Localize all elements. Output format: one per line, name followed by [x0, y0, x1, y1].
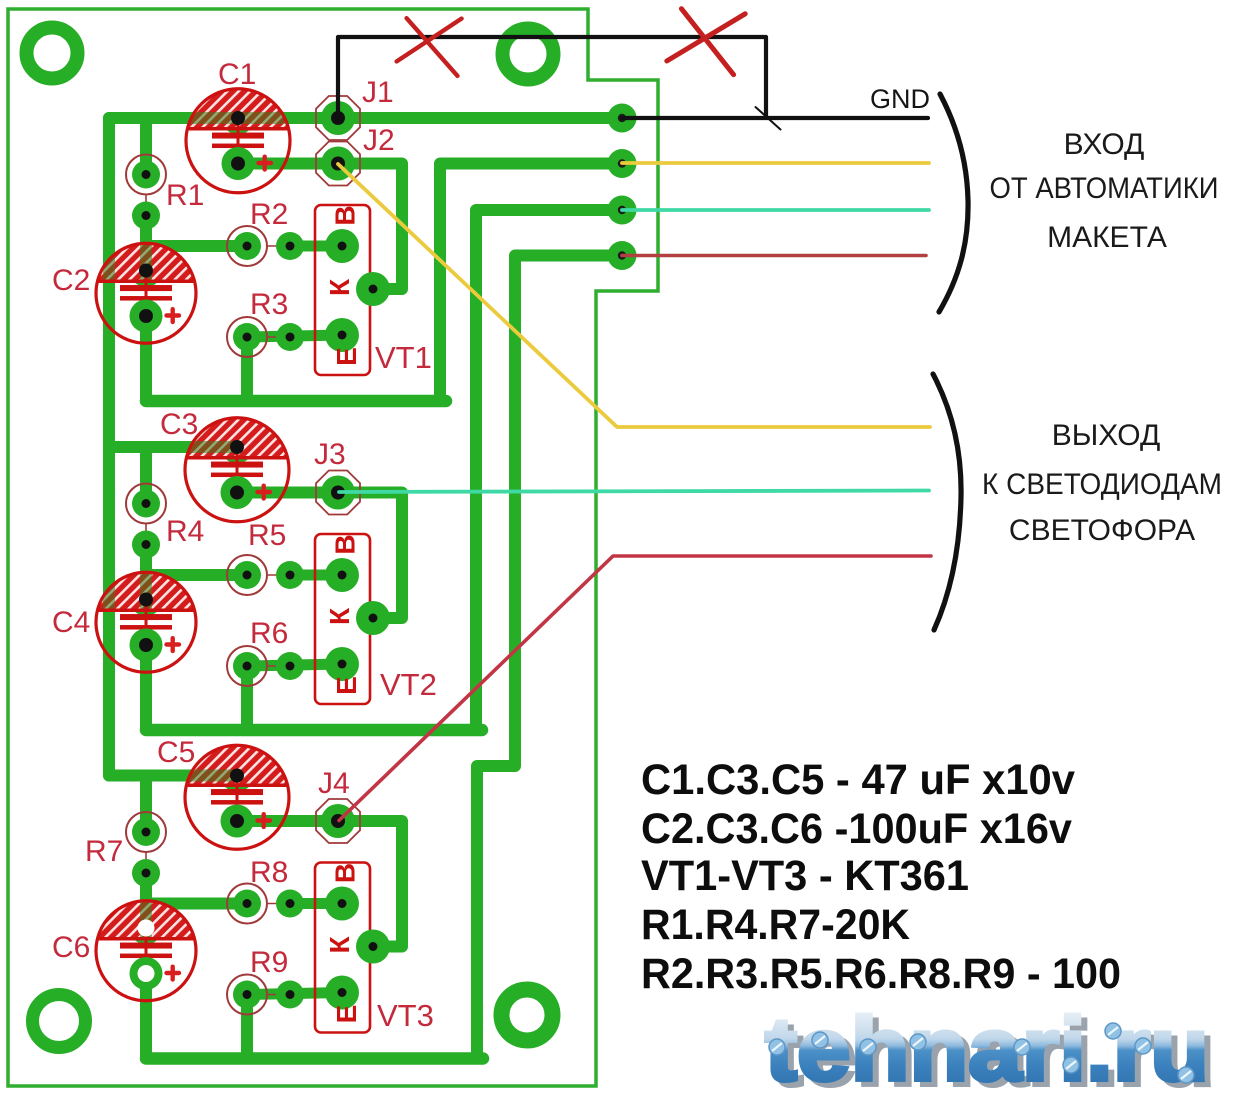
wire trace: section3 top branch from rail to C5 top pad	[109, 770, 237, 782]
wire trace: R7 bottom pad down to C6 top pad	[140, 873, 152, 928]
wire trace: R9 pads to emitter pad of VT3	[247, 993, 342, 995]
wire trace: J3 row from C3 bottom pad to J3 then down to K pad of VT2	[237, 493, 402, 619]
svg-text:C1.C3.C5 - 47 uF x10v: C1.C3.C5 - 47 uF x10v	[641, 756, 1075, 804]
svg-text:VT1-VT3 - KT361: VT1-VT3 - KT361	[641, 852, 969, 900]
svg-text:СВЕТОФОРА: СВЕТОФОРА	[1009, 514, 1195, 547]
svg-text:R1.R4.R7-20K: R1.R4.R7-20K	[641, 901, 910, 949]
svg-text:К: К	[324, 936, 355, 954]
wire trace: section1 bottom rail	[146, 395, 446, 408]
PCB board outline	[8, 9, 658, 1086]
label R6	[250, 617, 288, 650]
wire GND jumper from J1 over board to pad P1	[338, 37, 766, 118]
value label C1.C3.C5 - 47 uF x10v	[641, 756, 1075, 804]
label J2	[363, 124, 395, 157]
svg-text:C3: C3	[160, 408, 198, 441]
resistor R2	[227, 226, 304, 266]
wire trace: R2 right pad to base pad of VT1	[290, 241, 342, 252]
svg-text:C1: C1	[218, 58, 256, 91]
label input text ОТ АВТОМАТИКИ	[990, 172, 1219, 205]
transistor VT1	[315, 205, 390, 375]
resistor R8	[227, 884, 304, 924]
wire trace: section2 bottom rail	[146, 724, 482, 737]
label C5	[157, 736, 195, 769]
svg-text:К: К	[324, 278, 355, 296]
svg-text:R7: R7	[85, 835, 123, 868]
svg-text:C2.C3.C6 -100uF x16v: C2.C3.C6 -100uF x16v	[641, 805, 1072, 853]
svg-text:МАКЕТА: МАКЕТА	[1047, 221, 1167, 254]
svg-text:R8: R8	[250, 856, 288, 889]
wire trace: R5 right pad to base pad of VT2	[290, 570, 342, 581]
wire trace: R6 left pad down to bottom rail	[241, 666, 253, 730]
resistor R5	[227, 555, 304, 595]
svg-text:VT2: VT2	[380, 667, 437, 702]
svg-text:J2: J2	[363, 124, 395, 157]
brace input group	[939, 94, 968, 312]
wire GND segment from pad P1 to cable group	[622, 116, 928, 120]
capacitor C4	[96, 572, 196, 672]
transistor VT3	[315, 863, 390, 1033]
svg-text:R2.R3.R5.R6.R8.R9 - 100: R2.R3.R5.R6.R8.R9 - 100	[641, 950, 1121, 998]
wire trace: branch to R5 left pad	[146, 569, 247, 581]
wire trace: input row4 from pad P4 down to section3 rail	[477, 256, 622, 1059]
wire teal input from pad P3	[622, 208, 929, 212]
svg-text:В: В	[330, 205, 361, 225]
resistor R4	[126, 484, 166, 559]
wire trace: R6 pads to emitter pad of VT2	[247, 664, 342, 666]
label R1	[166, 179, 204, 212]
resistor R3	[227, 317, 304, 357]
label C1	[218, 58, 256, 91]
wire trace: C2 bottom pad down to bottom rail	[140, 316, 152, 401]
svg-text:C4: C4	[52, 606, 90, 639]
label C3	[160, 408, 198, 441]
svg-text:C6: C6	[52, 931, 90, 964]
label C4	[52, 606, 90, 639]
junction tick on GND wire corner	[756, 107, 781, 130]
mounting hole bottom-center	[502, 990, 553, 1041]
svg-text:R2: R2	[250, 198, 288, 231]
wire trace: R3 left pad down to bottom rail	[241, 337, 253, 401]
label VT2	[380, 667, 437, 702]
svg-text:R1: R1	[166, 179, 204, 212]
svg-text:Е: Е	[331, 676, 362, 695]
svg-text:К СВЕТОДИОДАМ: К СВЕТОДИОДАМ	[982, 468, 1222, 501]
label input text ВХОД	[1064, 128, 1145, 161]
value label C2.C3.C6 -100uF x16v	[641, 805, 1072, 853]
label C6	[52, 931, 90, 964]
label R3	[250, 288, 288, 321]
wire trace: feed from top branch down to R4 top pad	[140, 447, 152, 504]
transistor VT2	[315, 534, 390, 704]
pad P3 (teal in)	[608, 196, 637, 225]
wire trace: section3 bottom rail	[146, 1052, 483, 1065]
cross-out X2 on GND jumper	[667, 9, 745, 75]
label input text МАКЕТА	[1047, 221, 1167, 254]
wire trace: R9 left pad down to bottom rail	[241, 995, 253, 1059]
svg-text:R6: R6	[250, 617, 288, 650]
connector pad J2	[316, 142, 360, 186]
wire trace: input row3 from pad P3 down to section2 rail	[476, 210, 622, 730]
label output text К СВЕТОДИОДАМ	[982, 468, 1222, 501]
wire trace: R4 bottom pad down to C4 top pad	[140, 545, 152, 600]
capacitor C3	[185, 418, 289, 522]
wire trace: R8 right pad to base pad of VT3	[290, 898, 342, 909]
label J4	[318, 767, 350, 800]
wire trace: R1 bottom pad down to C2 top pad	[140, 216, 152, 271]
wire trace: feed from top branch down to R1 top pad	[140, 118, 152, 175]
svg-text:J1: J1	[362, 76, 394, 109]
value label VT1-VT3 - KT361	[641, 852, 969, 900]
wire trace: branch to R8 left pad	[146, 898, 247, 910]
wire trace: row1 GND trace from rail through C1,J1 to pad P1	[109, 112, 622, 124]
svg-text:Е: Е	[331, 1005, 362, 1024]
wire trace: J2 row from C1 bottom pad to J2 then down to K pad of VT1	[238, 164, 402, 290]
mounting hole top-left	[27, 28, 78, 79]
label R7	[85, 835, 123, 868]
label J3	[314, 438, 346, 471]
resistor R1	[126, 155, 166, 230]
connector pad J3	[316, 471, 360, 515]
label R8	[250, 856, 288, 889]
label output text СВЕТОФОРА	[1009, 514, 1195, 547]
brace output group	[933, 374, 961, 630]
capacitor C5	[185, 745, 289, 849]
svg-text:R3: R3	[250, 288, 288, 321]
wire trace: input row2 from pad P2 down to section1 rail	[440, 164, 622, 402]
wire trace: C6 bottom pad down to bottom rail	[140, 974, 152, 1059]
resistor R7	[126, 812, 166, 887]
wire yellow output from J2	[338, 164, 930, 427]
wire trace: left power rail	[103, 118, 115, 776]
svg-text:ОТ АВТОМАТИКИ: ОТ АВТОМАТИКИ	[990, 172, 1219, 205]
svg-text:В: В	[330, 863, 361, 883]
svg-text:J3: J3	[314, 438, 346, 471]
svg-text:ВЫХОД: ВЫХОД	[1052, 419, 1161, 452]
mounting hole top-center	[503, 29, 554, 80]
svg-text:C2: C2	[52, 264, 90, 297]
svg-text:ВХОД: ВХОД	[1064, 128, 1145, 161]
value label R1.R4.R7-20K	[641, 901, 910, 949]
svg-text:R4: R4	[166, 515, 204, 548]
mounting hole bottom-left	[33, 995, 86, 1048]
label GND	[870, 84, 930, 114]
wire trace: J4 row from C5 bottom pad to J4 then down to K pad of VT3	[237, 821, 402, 947]
svg-text:J4: J4	[318, 767, 350, 800]
label R5	[248, 519, 286, 552]
label R4	[166, 515, 204, 548]
logo tehnari.ru	[765, 1000, 1215, 1105]
label VT3	[377, 998, 434, 1033]
svg-text:VT1: VT1	[375, 340, 432, 375]
connector pad J4	[316, 799, 360, 843]
wire teal output from J3	[339, 491, 929, 493]
wire trace: C4 bottom pad down to bottom rail	[140, 645, 152, 730]
pad P1 (GND)	[608, 104, 637, 133]
cross-out X1 on GND jumper	[397, 18, 462, 76]
svg-text:R5: R5	[248, 519, 286, 552]
capacitor C6	[96, 901, 196, 1001]
capacitor C2	[96, 243, 196, 343]
wire trace: feed from top branch down to R7 top pad	[140, 776, 152, 833]
label R9	[250, 946, 288, 979]
svg-text:В: В	[330, 534, 361, 554]
capacitor C1	[186, 89, 290, 193]
wire trace: branch to R2 left pad	[146, 240, 247, 252]
wire trace: section2 top branch from rail to C3 top pad	[109, 441, 237, 453]
value label R2.R3.R5.R6.R8.R9 - 100	[641, 950, 1121, 998]
label J1	[362, 76, 394, 109]
pad P4 (red in)	[608, 241, 637, 270]
svg-text:GND: GND	[870, 84, 930, 114]
wire trace: R3 pads to emitter pad of VT1	[247, 335, 342, 337]
resistor R6	[227, 646, 304, 686]
label R2	[250, 198, 288, 231]
pad P2 (yellow in)	[608, 149, 637, 178]
wire red input from pad P4	[622, 254, 926, 258]
svg-text:К: К	[324, 607, 355, 625]
resistor R9	[227, 975, 304, 1015]
svg-text:R9: R9	[250, 946, 288, 979]
label C2	[52, 264, 90, 297]
wire yellow input from pad P2	[622, 161, 929, 165]
svg-text:VT3: VT3	[377, 998, 434, 1033]
svg-text:Е: Е	[331, 347, 362, 366]
label output text ВЫХОД	[1052, 419, 1161, 452]
label VT1	[375, 340, 432, 375]
wire red output from J4	[339, 556, 931, 821]
svg-text:C5: C5	[157, 736, 195, 769]
connector pad J1	[316, 96, 360, 140]
